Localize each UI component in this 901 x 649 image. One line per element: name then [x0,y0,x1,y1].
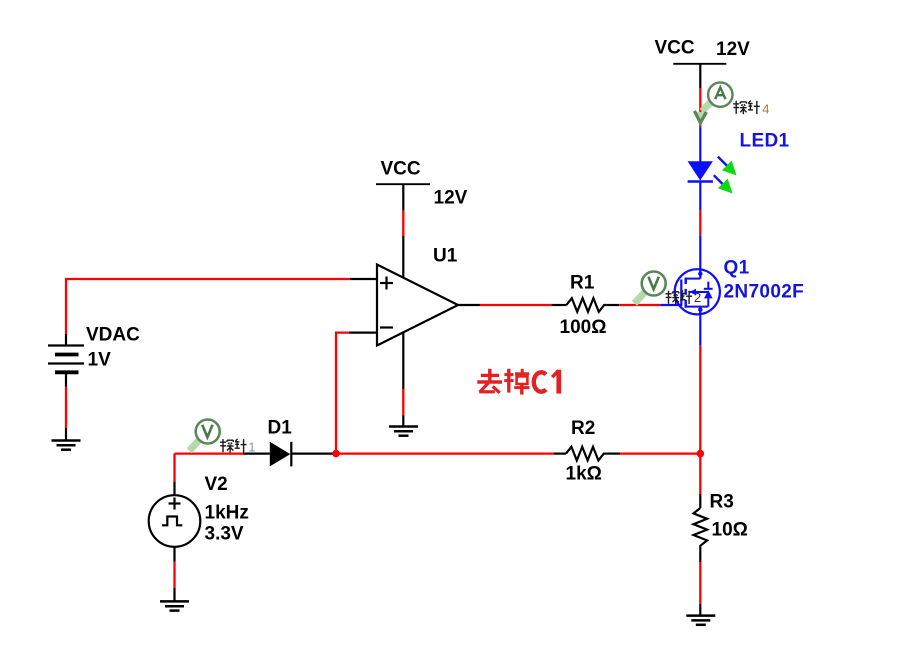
source V2 (square wave) [149,482,201,562]
wire net VDAC+ to opamp noninverting input (red) [66,279,350,334]
diode D1 [243,442,333,467]
battery VDAC [48,334,84,387]
svg-text:12V: 12V [716,39,750,60]
label probe1 digit 1 [248,439,255,454]
label probe1 (tan-zhen 1) [220,439,247,453]
label R2 [571,418,595,439]
op-amp supply lead (black) [402,236,404,278]
label U1 [433,246,458,267]
svg-text:R1: R1 [570,273,595,294]
ground (below op-amp) [389,427,418,436]
svg-text:1kΩ: 1kΩ [566,464,602,485]
wire opamp -input to bottom node (red) [336,333,349,454]
svg-text:100Ω: 100Ω [560,317,607,338]
junction node at Q1 source / R3 [697,450,705,458]
ground (below R3) [686,616,715,625]
label LED1 [740,131,790,152]
label R1 [570,273,595,294]
label 2N7002F [724,282,805,303]
value 1kohm [566,464,602,485]
ground lead VDAC (black) [65,428,67,441]
svg-text:R2: R2 [571,418,595,439]
svg-text:U1: U1 [433,246,458,267]
svg-text:VDAC: VDAC [86,325,140,346]
ground (below VDAC) [52,441,81,450]
wire Q1 source to node (red) [699,346,701,454]
wire V2 to D1 (red) [175,452,244,454]
wire V2+ up to node (red) [173,454,175,482]
junction node at opamp feedback [332,450,340,458]
ground lead V2 (black) [173,588,175,602]
svg-text:VCC: VCC [381,159,421,180]
wire VCC bar down (black) [699,64,701,88]
ground lead opamp (black) [402,416,404,428]
svg-text:4: 4 [762,102,769,117]
wire battery- to ground (red) [65,387,67,429]
svg-text:1V: 1V [88,350,112,371]
wire R1 to Q1 gate (red) [619,304,660,306]
label probe4 digit 4 [762,102,769,117]
transistor Q1 (2N7002F MOSFET) [660,269,720,315]
value 12V (top right) [716,39,750,60]
svg-text:12V: 12V [434,188,468,209]
red text note "remove C1" [477,369,559,395]
svg-text:Q1: Q1 [724,258,750,279]
wire R3 to ground (red) [699,562,701,604]
wire opamp inverting input lead (black) [349,332,377,334]
LED cathode lead (blue) [699,182,701,211]
wire opamp output lead (black) [458,304,480,306]
wire LED to Q1 drain (red) [699,210,701,235]
label R3 [710,492,734,513]
value 12V (opamp supply) [434,188,468,209]
svg-text:2: 2 [694,290,701,305]
wire node to R3 (red) [699,454,701,494]
op-amp negative supply lead (black) [402,332,404,389]
LED anode lead (blue) [699,128,701,162]
wire VCC to LED anode (red) [699,88,701,128]
LED LED1 [688,157,737,194]
resistor R2 [554,447,620,461]
label probe4 (tan-zhen 4) [733,101,760,115]
value 1V [88,350,112,371]
label V2 [205,474,228,495]
label probe2 (tan-zhen 2) [666,291,693,305]
resistor R3 [694,494,708,562]
svg-text:V2: V2 [205,474,228,495]
value 100ohm [560,317,607,338]
wire D1 to R2 (red) [333,452,554,454]
power VCC rail (top right) [655,38,727,64]
wire opamp to ground (red) [402,389,404,416]
power VCC rail (above op-amp) [376,159,430,185]
value 1kHz [205,503,249,524]
Q1 source lead (blue) [699,310,701,346]
wire opamp output to R1 (red) [480,304,552,306]
ground (below V2) [160,601,189,610]
label VDAC [86,325,140,346]
wire VCC bar down (black) [402,184,404,210]
probe 2 voltage probe V [632,272,666,306]
value 10ohm [712,520,748,541]
svg-text:3.3V: 3.3V [205,524,244,545]
resistor R1 [552,298,620,312]
wire VCC to opamp (red) [402,211,404,236]
Q1 drain lead (blue) [699,235,701,274]
svg-text:2N7002F: 2N7002F [724,282,805,303]
svg-text:1: 1 [248,439,255,454]
wire opamp +input lead (black) [350,278,377,280]
label Q1 [724,258,750,279]
probe 4 current probe A [694,82,732,122]
ground lead R3 (black) [699,604,701,616]
op-amp U1 [377,265,458,346]
label D1 [268,418,293,439]
value 3.3V [205,524,244,545]
svg-text:VCC: VCC [655,38,695,59]
svg-text:1kHz: 1kHz [205,503,249,524]
wire V2- to ground (red) [173,562,175,588]
svg-text:R3: R3 [710,492,734,513]
svg-text:LED1: LED1 [740,131,790,152]
svg-text:10Ω: 10Ω [712,520,748,541]
svg-text:D1: D1 [268,418,293,439]
label probe2 digit 2 [694,290,701,305]
wire R2 to node (red) [620,452,700,454]
probe 1 voltage probe V [187,420,220,454]
